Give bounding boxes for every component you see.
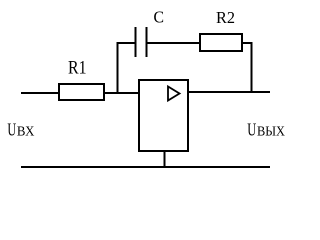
svg-text:R2: R2 [216, 8, 235, 27]
svg-text:C: C [154, 8, 165, 27]
svg-text:R1: R1 [68, 58, 87, 79]
